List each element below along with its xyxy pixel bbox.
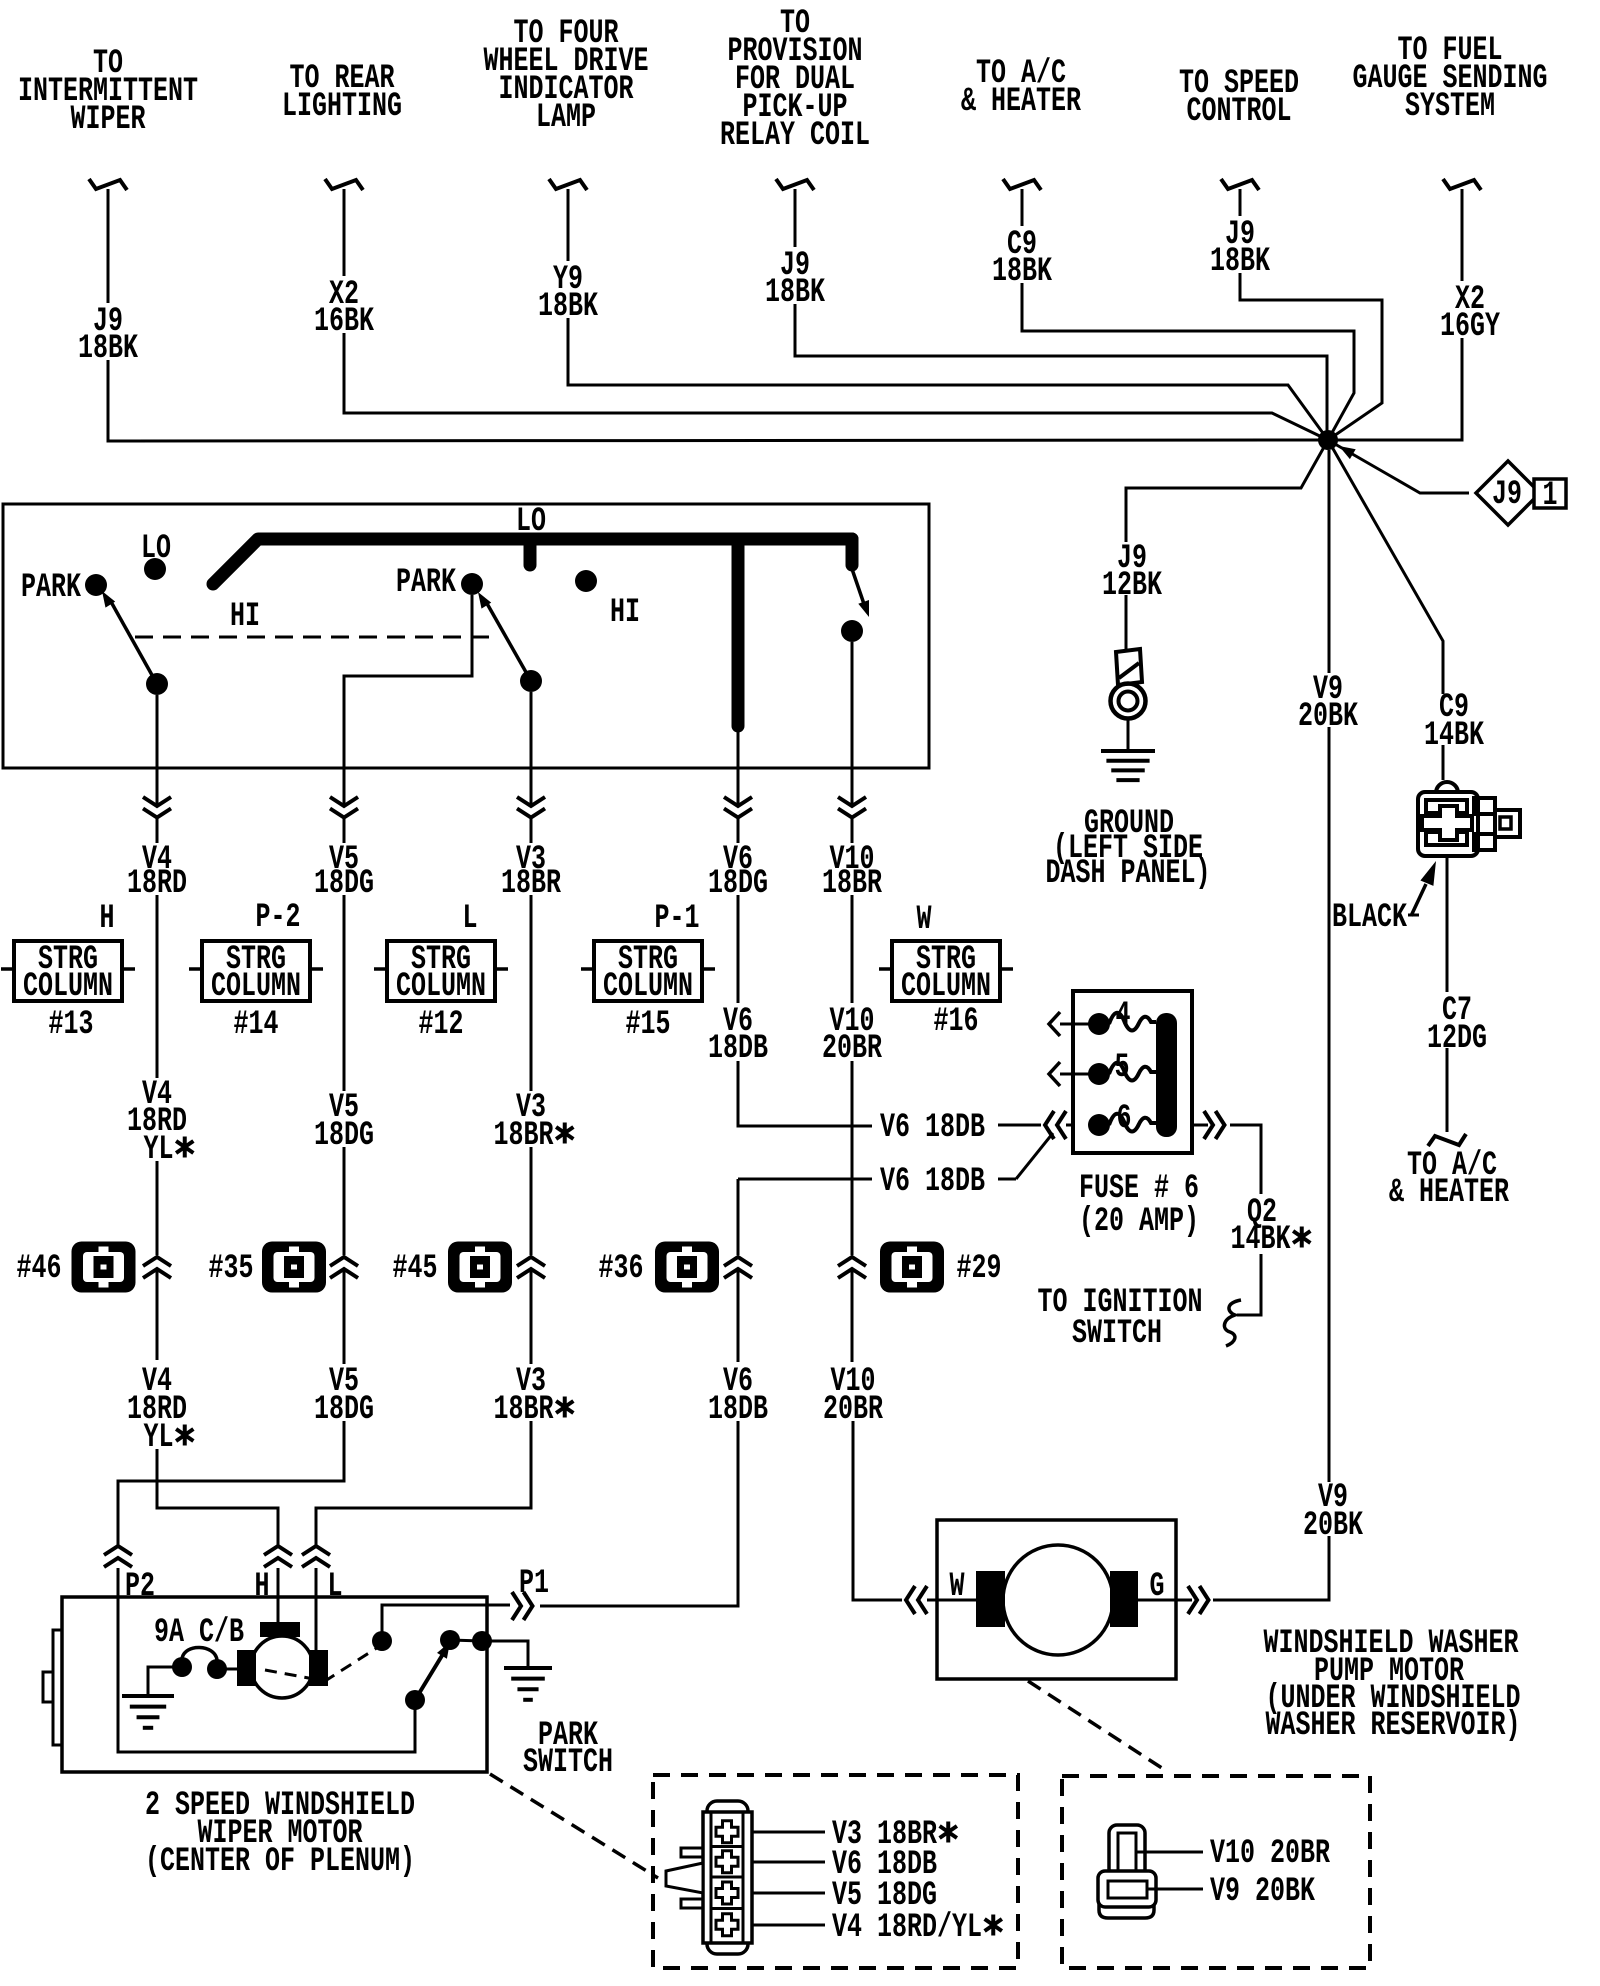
svg-text:W: W xyxy=(917,901,932,939)
svg-text:#46: #46 xyxy=(17,1250,62,1288)
svg-text:(CENTER OF PLENUM): (CENTER OF PLENUM) xyxy=(145,1843,415,1881)
svg-text:L: L xyxy=(328,1568,343,1606)
svg-text:HI: HI xyxy=(230,598,260,636)
svg-text:14BK: 14BK xyxy=(1231,1221,1291,1259)
svg-text:SYSTEM: SYSTEM xyxy=(1405,88,1495,126)
svg-text:1: 1 xyxy=(1543,477,1558,515)
svg-text:V10 20BR: V10 20BR xyxy=(1210,1835,1330,1873)
svg-text:CONTROL: CONTROL xyxy=(1187,93,1292,131)
svg-text:#45: #45 xyxy=(393,1250,438,1288)
svg-text:16GY: 16GY xyxy=(1440,308,1500,346)
svg-text:L: L xyxy=(463,900,478,938)
svg-text:WIPER: WIPER xyxy=(71,101,146,139)
svg-text:P-2: P-2 xyxy=(256,899,301,937)
svg-text:P-1: P-1 xyxy=(655,900,700,938)
svg-text:#29: #29 xyxy=(957,1250,1002,1288)
svg-text:#15: #15 xyxy=(626,1006,671,1044)
svg-text:COLUMN: COLUMN xyxy=(901,968,991,1006)
svg-text:HI: HI xyxy=(610,594,640,632)
svg-text:14BK: 14BK xyxy=(1424,717,1484,755)
svg-text:V9 20BK: V9 20BK xyxy=(1210,1873,1315,1911)
svg-text:H: H xyxy=(100,900,115,938)
svg-text:PARK: PARK xyxy=(21,569,81,607)
svg-text:#14: #14 xyxy=(234,1006,279,1044)
svg-text:& HEATER: & HEATER xyxy=(1389,1174,1509,1212)
svg-text:COLUMN: COLUMN xyxy=(23,968,113,1006)
svg-text:6: 6 xyxy=(1117,1100,1132,1138)
svg-text:COLUMN: COLUMN xyxy=(603,968,693,1006)
svg-text:#16: #16 xyxy=(934,1003,979,1041)
svg-text:RELAY COIL: RELAY COIL xyxy=(720,117,870,155)
svg-text:H: H xyxy=(255,1568,270,1606)
svg-text:12DG: 12DG xyxy=(1427,1020,1487,1058)
svg-text:COLUMN: COLUMN xyxy=(211,968,301,1006)
svg-text:LIGHTING: LIGHTING xyxy=(282,88,402,126)
svg-text:#12: #12 xyxy=(419,1006,464,1044)
svg-text:#35: #35 xyxy=(209,1250,254,1288)
svg-text:#36: #36 xyxy=(599,1250,644,1288)
svg-text:P2: P2 xyxy=(125,1568,155,1606)
svg-text:WASHER RESERVOIR): WASHER RESERVOIR) xyxy=(1266,1707,1521,1745)
svg-text:(20 AMP): (20 AMP) xyxy=(1079,1203,1199,1241)
svg-text:#13: #13 xyxy=(49,1006,94,1044)
svg-text:5: 5 xyxy=(1115,1049,1130,1087)
svg-text:V4 18RD/YL: V4 18RD/YL xyxy=(832,1909,982,1947)
svg-text:PARK: PARK xyxy=(396,564,456,602)
svg-text:V6 18DB: V6 18DB xyxy=(880,1163,985,1201)
svg-text:SWITCH: SWITCH xyxy=(523,1744,613,1782)
svg-text:& HEATER: & HEATER xyxy=(961,83,1081,121)
svg-text:DASH PANEL): DASH PANEL) xyxy=(1046,855,1211,893)
svg-text:W: W xyxy=(950,1568,965,1606)
svg-text:SWITCH: SWITCH xyxy=(1072,1315,1162,1353)
svg-text:20BK: 20BK xyxy=(1303,1507,1363,1545)
svg-text:4: 4 xyxy=(1116,997,1131,1035)
svg-text:V6 18DB: V6 18DB xyxy=(880,1109,985,1147)
svg-text:18BR: 18BR xyxy=(494,1117,554,1155)
svg-text:BLACK: BLACK xyxy=(1332,899,1407,937)
svg-text:J9: J9 xyxy=(1492,476,1522,514)
svg-text:P1: P1 xyxy=(519,1565,549,1603)
svg-text:12BK: 12BK xyxy=(1102,567,1162,605)
svg-text:LAMP: LAMP xyxy=(536,99,596,137)
svg-text:COLUMN: COLUMN xyxy=(396,968,486,1006)
svg-text:18BR: 18BR xyxy=(494,1391,554,1429)
